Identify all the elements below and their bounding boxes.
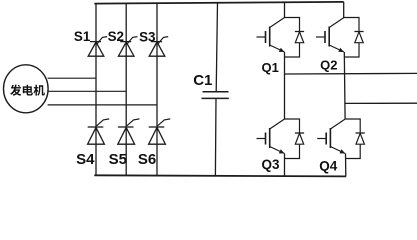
svg-text:S2: S2	[108, 29, 124, 44]
wire: bottom DC- rail	[94, 175, 346, 176]
thyristor S4	[88, 119, 110, 144]
svg-text:S6: S6	[138, 151, 156, 168]
wire: inverter leg1 collector stub (Q1)	[284, 2, 286, 17]
svg-text:Q2: Q2	[320, 58, 337, 73]
wire: AC output phase 1 (from leg1 midpoint)	[285, 72, 417, 75]
svg-text:S5: S5	[109, 151, 127, 168]
wire: AC output phase 2 (from leg2 midpoint)	[345, 102, 417, 104]
label 发电机 (generator)	[10, 85, 45, 96]
svg-text:S4: S4	[76, 151, 95, 168]
wire: inverter leg1 emitter to DC- (Q3)	[284, 154, 286, 176]
IGBT Q1	[257, 18, 300, 53]
capacitor C1	[202, 92, 229, 99]
wire: inverter leg2 midsection (Q2 emitter to Q4 collector)	[343, 52, 346, 119]
freewheel diode of Q3	[285, 133, 305, 159]
wire: DC-link capacitor top lead	[216, 2, 217, 91]
svg-text:Q4: Q4	[319, 158, 338, 173]
wire: generator phase a to leg a	[48, 77, 96, 79]
wire: inverter leg2 collector stub (Q2)	[343, 2, 345, 18]
generator M1 (发电机) circle	[4, 65, 49, 113]
wire: inverter leg2 emitter to DC- (Q4)	[345, 154, 347, 177]
IGBT Q2	[316, 18, 359, 53]
wire: DC-link capacitor bottom lead	[214, 98, 217, 176]
wire: inverter leg1 midsection (Q1 emitter to Q3 collector)	[284, 52, 286, 119]
wire: top DC+ rail	[94, 2, 343, 4]
IGBT Q3	[257, 119, 300, 154]
svg-text:Q3: Q3	[262, 157, 281, 172]
svg-text:C1: C1	[193, 72, 212, 89]
wire: rectifier leg a (S1/S4)	[95, 3, 97, 175]
thyristor S6	[149, 119, 171, 144]
thyristor S3	[149, 37, 168, 57]
wire: generator phase c to leg c	[48, 104, 157, 106]
thyristor S1	[88, 37, 107, 57]
wire: rectifier leg b (S2/S5)	[125, 3, 127, 175]
IGBT Q4	[317, 119, 360, 154]
svg-text:Q1: Q1	[262, 60, 279, 75]
freewheel diode of Q1	[285, 32, 305, 58]
thyristor S2	[118, 37, 137, 57]
wire: generator phase b to leg b	[48, 90, 126, 92]
svg-text:S3: S3	[139, 30, 155, 45]
thyristor S5	[118, 119, 140, 144]
svg-text:S1: S1	[74, 29, 91, 44]
freewheel diode of Q4	[345, 133, 365, 159]
wire: rectifier leg c (S3/S6)	[156, 3, 158, 176]
freewheel diode of Q2	[344, 32, 364, 58]
